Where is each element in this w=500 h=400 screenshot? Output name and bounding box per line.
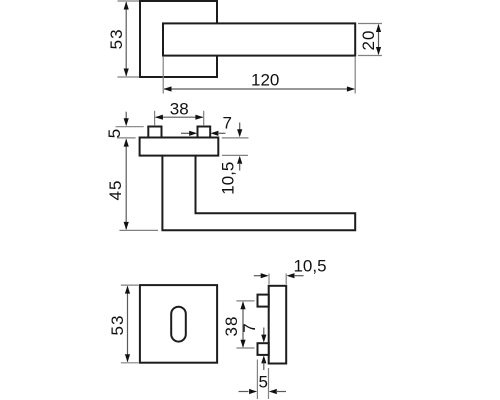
svg-text:10,5: 10,5	[219, 162, 238, 195]
side view screw post top	[258, 295, 269, 307]
front view rose plate	[140, 138, 219, 156]
dimension 10,5 (front view, plate thickness)	[219, 123, 249, 195]
svg-text:38: 38	[170, 99, 189, 118]
svg-text:38: 38	[222, 316, 241, 337]
dimension 38 (side view)	[222, 301, 255, 348]
svg-text:53: 53	[107, 28, 126, 49]
svg-text:7: 7	[240, 323, 259, 332]
svg-text:20: 20	[359, 30, 378, 51]
svg-text:120: 120	[251, 71, 279, 90]
svg-text:5: 5	[105, 129, 124, 138]
svg-text:7: 7	[222, 114, 231, 133]
keyhole	[171, 307, 186, 342]
svg-text:45: 45	[106, 180, 125, 201]
front view screw post left	[148, 127, 161, 138]
top view handle bar	[163, 23, 355, 55]
svg-text:5: 5	[258, 373, 267, 392]
dimension 20 (top view)	[358, 24, 382, 56]
top view rose (square)	[140, 1, 217, 77]
front view screw post right	[198, 127, 211, 138]
dimension 10,5 (side view)	[254, 257, 327, 285]
dimension 7 (side view, post height)	[240, 323, 266, 370]
side view screw post bottom	[258, 343, 269, 355]
dimension 53 (top view)	[107, 1, 139, 77]
front view handle lever	[162, 157, 355, 231]
dimension 38 (front view)	[155, 99, 204, 125]
side view rose body	[269, 286, 287, 364]
dimension 7 (front view, post width)	[181, 114, 232, 136]
svg-text:53: 53	[108, 315, 127, 336]
dimension 53 (bottom rose)	[108, 285, 139, 363]
dimension 120 (top view)	[163, 57, 355, 94]
dimension 5 (front view)	[105, 112, 144, 139]
dimension 45 (front view)	[106, 139, 158, 231]
bottom rose square (key rosette)	[140, 285, 217, 363]
dimension 5 (side view, post depth)	[239, 360, 287, 400]
svg-text:10,5: 10,5	[293, 257, 326, 276]
